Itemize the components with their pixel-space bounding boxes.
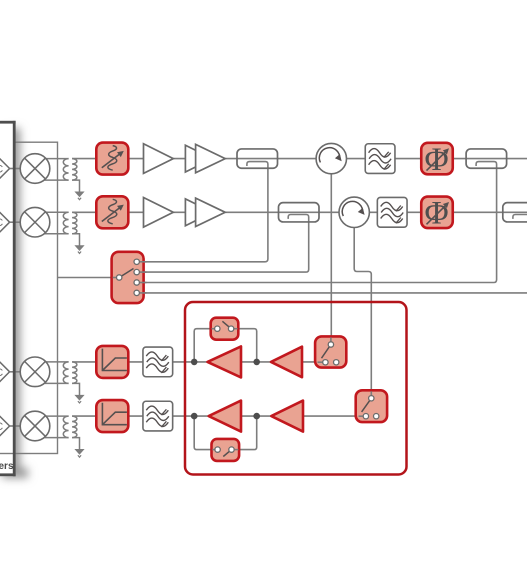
svg-text:ers: ers <box>0 461 14 472</box>
svg-text:C: C <box>0 217 3 229</box>
svg-text:C: C <box>0 421 3 433</box>
svg-text:C: C <box>0 367 3 379</box>
svg-text:C: C <box>0 164 3 176</box>
